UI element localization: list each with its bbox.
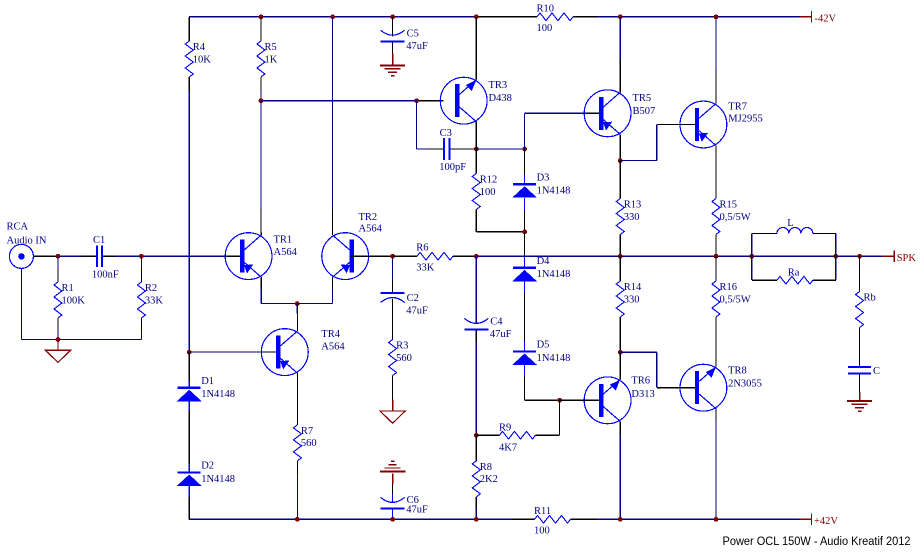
svg-text:+42V: +42V <box>814 516 838 527</box>
svg-text:Rb: Rb <box>864 293 876 304</box>
wire TR6 base lead <box>560 399 599 401</box>
wire R6 right lead <box>453 255 476 257</box>
wire R9 link up <box>559 400 561 435</box>
svg-text:1N4148: 1N4148 <box>201 474 235 485</box>
svg-text:10K: 10K <box>193 54 212 65</box>
capacitor C2 <box>381 292 428 316</box>
wire TR4 base <box>189 351 276 353</box>
diode D4 <box>512 256 570 281</box>
junction TR8 emitter bottom <box>714 517 719 522</box>
resistor Ra <box>777 267 813 284</box>
junction input node <box>56 254 61 259</box>
svg-text:1N4148: 1N4148 <box>537 353 571 364</box>
wire input ground loop <box>21 268 141 339</box>
transistor TR7 <box>680 101 763 148</box>
svg-text:0,5/5W: 0,5/5W <box>720 212 751 223</box>
wire TR3 base net <box>261 100 444 102</box>
wire to TR5 base <box>525 113 599 149</box>
wire TR5 emitter to TR7 base <box>620 125 695 161</box>
wire R7 to bottom rail <box>296 461 298 519</box>
capacitor C5 <box>381 29 428 53</box>
wire R9 right lead <box>536 434 560 436</box>
wire TR6 collector pin <box>619 352 621 379</box>
svg-text:TR4: TR4 <box>321 329 340 340</box>
transistor TR8 <box>680 364 762 411</box>
svg-text:TR6: TR6 <box>631 375 650 386</box>
junction TR6 emitter bottom <box>618 517 623 522</box>
ground earth below C5 <box>380 65 405 75</box>
wire TR2 base to R6 <box>350 255 392 257</box>
svg-text:560: 560 <box>396 353 412 364</box>
resistor R15 <box>712 199 751 235</box>
resistor R14 <box>616 281 642 317</box>
svg-text:D4: D4 <box>537 256 551 267</box>
wire R16 to TR8 <box>715 317 717 367</box>
wire C1 to TR1 base <box>103 255 240 257</box>
wire C2 top lead <box>392 256 394 292</box>
wire C6 to bottom rail <box>392 510 394 520</box>
svg-text:R2: R2 <box>145 283 157 294</box>
svg-text:0,5/5W: 0,5/5W <box>720 294 751 305</box>
wire R1 top lead <box>57 256 59 282</box>
wire TR7 collector <box>715 17 717 104</box>
transistor TR1 <box>225 233 297 280</box>
wire TR7 emitter to R15 <box>715 146 717 199</box>
wire D2 to bottom rail <box>188 486 190 519</box>
wire R3 to ground <box>392 376 394 412</box>
svg-text:100nF: 100nF <box>92 270 119 281</box>
svg-text:Audio IN: Audio IN <box>7 235 47 246</box>
svg-text:2K2: 2K2 <box>480 474 498 485</box>
wire R12 top lead <box>475 149 477 174</box>
wire top rail -42V net <box>189 16 799 18</box>
svg-text:100: 100 <box>537 23 553 34</box>
wire R2 top lead <box>140 256 142 282</box>
wire output rail SPK net <box>476 255 882 257</box>
svg-text:1K: 1K <box>265 54 278 65</box>
diode D5 <box>512 340 570 365</box>
wire TR8 emitter <box>715 409 717 520</box>
svg-text:100pF: 100pF <box>439 162 466 173</box>
svg-text:33K: 33K <box>416 262 435 273</box>
svg-text:R12: R12 <box>480 175 498 186</box>
svg-text:R9: R9 <box>499 423 511 434</box>
junction TR5 collector top <box>618 14 623 19</box>
svg-text:R14: R14 <box>624 282 642 293</box>
resistor R4 <box>185 41 211 77</box>
junction TR5 emitter node <box>618 158 623 163</box>
diode D1 <box>177 376 235 401</box>
svg-text:R1: R1 <box>62 283 74 294</box>
power terminal +42V <box>799 514 838 527</box>
svg-text:R8: R8 <box>480 462 492 473</box>
wire C2 to R3 <box>392 299 394 340</box>
svg-text:D2: D2 <box>201 461 214 472</box>
svg-text:D1: D1 <box>201 376 214 387</box>
resistor R11 <box>534 506 571 537</box>
junction output/L-Ra left node <box>749 254 754 259</box>
junction output/Rb node <box>857 254 862 259</box>
resistor R1 <box>54 282 85 318</box>
svg-text:R13: R13 <box>624 200 642 211</box>
svg-text:1N4148: 1N4148 <box>537 269 571 280</box>
svg-text:2N3055: 2N3055 <box>728 378 762 389</box>
svg-text:TR2: TR2 <box>359 212 378 223</box>
svg-text:SPK: SPK <box>897 253 917 264</box>
junction output/R6/C4 node <box>474 254 479 259</box>
capacitor C1 <box>92 235 119 281</box>
wire D5 to TR6 base <box>525 365 560 400</box>
wire C5 to ground <box>392 42 394 65</box>
resistor R9 <box>499 423 536 454</box>
svg-text:D5: D5 <box>537 340 550 351</box>
wire C4 top lead <box>475 256 477 324</box>
diode D3 <box>512 172 570 197</box>
wire R5 to TR3-base node <box>260 77 262 101</box>
wire D3 bottom lead <box>524 198 526 232</box>
junction TR3 base / C3 <box>414 98 419 103</box>
capacitor C3 <box>439 128 466 173</box>
wire R5 top lead <box>260 17 262 41</box>
power terminal -42V <box>800 11 837 24</box>
wire node to D1 <box>188 352 190 387</box>
wire D3 top lead <box>524 149 526 183</box>
wire R16 top lead <box>715 256 717 281</box>
wire C5 top lead <box>392 17 394 37</box>
svg-text:330: 330 <box>624 212 640 223</box>
junction C6 bottom <box>390 517 395 522</box>
svg-text:R3: R3 <box>396 341 408 352</box>
svg-text:1N4148: 1N4148 <box>201 389 235 400</box>
svg-text:B507: B507 <box>633 106 656 117</box>
svg-text:47uF: 47uF <box>406 41 428 52</box>
svg-text:R6: R6 <box>416 243 428 254</box>
wire TR5 emitter pin <box>619 134 621 160</box>
wire node down to TR1 collector <box>260 101 262 235</box>
transistor TR3 <box>440 77 512 124</box>
resistor R5 <box>257 41 278 77</box>
wire to TR4 collector <box>296 304 298 332</box>
svg-text:RCA: RCA <box>7 222 29 233</box>
junction R8 bottom <box>474 517 479 522</box>
wire TR5 collector <box>619 17 621 93</box>
wire D4 to D5 <box>524 282 526 351</box>
svg-text:33K: 33K <box>145 295 164 306</box>
wire R14 top lead <box>619 256 621 281</box>
svg-text:D438: D438 <box>489 93 512 104</box>
resistor R12 <box>472 174 497 210</box>
transistor TR5 <box>584 90 655 137</box>
svg-text:C1: C1 <box>93 235 105 246</box>
wire Rb to C <box>859 328 861 367</box>
resistor R7 <box>293 425 316 461</box>
svg-text:C2: C2 <box>407 293 419 304</box>
wire TR3 collector pin <box>475 122 477 149</box>
svg-text:TR5: TR5 <box>633 93 652 104</box>
wire node to D3 node <box>476 148 524 150</box>
svg-text:R11: R11 <box>534 506 551 517</box>
junction TR3 emitter top <box>474 14 479 19</box>
wire Ra loop <box>752 256 836 280</box>
junction output/R15/R16 node <box>714 254 719 259</box>
junction R2 top node <box>139 254 144 259</box>
wire C3 branch <box>417 101 477 149</box>
junction R5 top <box>259 14 264 19</box>
transistor TR4 <box>261 329 345 376</box>
ground inverted above C6 <box>380 461 406 471</box>
junction R7 bottom <box>295 517 300 522</box>
wire C4 bottom lead <box>475 330 477 435</box>
svg-text:560: 560 <box>301 438 317 449</box>
svg-text:47uF: 47uF <box>406 305 428 316</box>
wire R4 to D1 <box>188 77 190 352</box>
junction TR2 collector top <box>330 14 335 19</box>
wire ground to C6 <box>392 474 394 503</box>
svg-text:R7: R7 <box>301 426 313 437</box>
capacitor C4 <box>464 317 511 341</box>
resistor R13 <box>616 199 641 235</box>
wire R6 left lead <box>393 255 417 257</box>
junction R6/C2 node <box>390 254 395 259</box>
svg-text:C3: C3 <box>440 128 452 139</box>
power terminal SPK <box>882 250 916 264</box>
svg-text:Ra: Ra <box>788 267 800 278</box>
svg-text:A564: A564 <box>321 342 345 353</box>
wire R9 left lead <box>476 434 499 436</box>
wire R8 bottom lead <box>475 497 477 520</box>
svg-text:MJ2955: MJ2955 <box>728 113 762 124</box>
wire TR3 emitter pin <box>475 17 477 80</box>
svg-text:100: 100 <box>534 526 550 537</box>
junction D3/D4 node <box>522 229 527 234</box>
svg-text:TR1: TR1 <box>274 235 293 246</box>
svg-text:R5: R5 <box>265 42 277 53</box>
diode D2 <box>177 461 235 486</box>
svg-text:C: C <box>873 366 880 377</box>
wire TR2 collector <box>332 17 334 235</box>
wire R8 top lead <box>475 435 477 461</box>
junction TR6 base node <box>557 398 562 403</box>
capacitor C6 <box>381 495 428 516</box>
svg-text:A564: A564 <box>274 247 298 258</box>
junction R5/TR1 collector <box>259 98 264 103</box>
svg-text:R15: R15 <box>720 200 738 211</box>
wire TR1/TR2 emitters <box>261 277 332 304</box>
wire L loop <box>752 234 836 257</box>
ground below R3 <box>380 411 405 423</box>
svg-text:C5: C5 <box>407 29 419 40</box>
svg-text:A564: A564 <box>359 223 383 234</box>
svg-text:L: L <box>787 218 793 229</box>
junction C5 top <box>390 14 395 19</box>
transistor TR2 <box>322 212 383 280</box>
junction R9/R8 node <box>474 433 479 438</box>
inductor L <box>777 218 813 233</box>
wire R15 bottom lead <box>715 235 717 257</box>
svg-text:100: 100 <box>480 187 496 198</box>
svg-text:D313: D313 <box>631 389 654 400</box>
wire TR4 emitter to R7 <box>296 373 298 425</box>
svg-text:R10: R10 <box>537 3 555 14</box>
wire D4 top lead <box>524 232 526 267</box>
svg-text:TR3: TR3 <box>489 80 508 91</box>
junction D3 top node <box>522 147 527 152</box>
wire D1 to D2 <box>188 401 190 471</box>
connector RCA Audio IN <box>7 222 47 269</box>
resistor R16 <box>712 281 751 317</box>
wire TR6 collector to TR8 base <box>620 352 695 387</box>
svg-text:Power OCL 150W - Audio Kreatif: Power OCL 150W - Audio Kreatif 2012 <box>723 534 911 548</box>
ground earth below C <box>847 401 872 411</box>
junction output/R13/R14 node <box>618 254 623 259</box>
capacitor C <box>848 366 880 377</box>
junction TR7 collector top <box>714 14 719 19</box>
junction TR6 collector node <box>618 350 623 355</box>
svg-text:47uF: 47uF <box>406 504 428 515</box>
junction emitter join <box>295 301 300 306</box>
transistor TR6 <box>584 375 655 423</box>
wire C to ground <box>859 374 861 401</box>
wire TR6 emitter <box>619 421 621 519</box>
wire R13 top lead <box>619 161 621 199</box>
svg-text:TR8: TR8 <box>728 365 747 376</box>
svg-text:C4: C4 <box>490 317 503 328</box>
resistor R8 <box>472 461 498 497</box>
wire R12 bottom to D3 bottom node <box>476 210 524 232</box>
wire Rb top lead <box>859 256 861 291</box>
resistor R6 <box>416 243 453 274</box>
svg-text:D3: D3 <box>537 172 550 183</box>
svg-text:1N4148: 1N4148 <box>537 186 571 197</box>
resistor R3 <box>389 340 412 376</box>
resistor R10 <box>537 3 574 34</box>
svg-text:47uF: 47uF <box>490 329 512 340</box>
wire RCA to C1 <box>33 255 96 257</box>
ground input <box>45 340 70 363</box>
svg-text:R4: R4 <box>193 42 206 53</box>
svg-text:100K: 100K <box>62 295 86 306</box>
svg-text:4K7: 4K7 <box>499 443 517 454</box>
wire R13 bottom lead <box>619 235 621 257</box>
svg-text:330: 330 <box>624 294 640 305</box>
junction input ground node <box>56 337 61 342</box>
junction TR3 collector node <box>474 147 479 152</box>
resistor R2 <box>137 282 163 318</box>
junction output/L-Ra right node <box>833 254 838 259</box>
wire R14 bottom lead <box>619 317 621 352</box>
svg-text:TR7: TR7 <box>728 102 747 113</box>
wire bottom rail +42V net <box>189 518 799 520</box>
svg-text:R16: R16 <box>720 282 738 293</box>
wire R4 branch top <box>188 17 190 41</box>
junction TR4 base node <box>187 350 192 355</box>
resistor Rb <box>856 292 876 328</box>
svg-text:-42V: -42V <box>815 13 837 24</box>
